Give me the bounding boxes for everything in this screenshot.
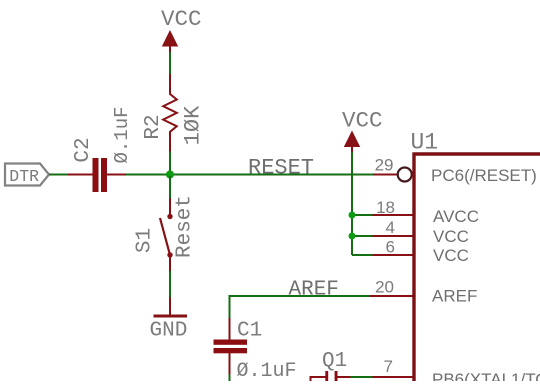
node junction RESET (R2/C2/S1) bbox=[166, 170, 174, 178]
svg-text:1ØK: 1ØK bbox=[180, 105, 205, 145]
svg-text:AREF: AREF bbox=[432, 287, 477, 306]
wire elbow to pin 6 bbox=[352, 254, 374, 256]
svg-text:PB6(XTAL1/TOSC1): PB6(XTAL1/TOSC1) bbox=[432, 370, 540, 381]
svg-text:Ø.1uF: Ø.1uF bbox=[111, 106, 133, 163]
pin 6 line bbox=[373, 254, 414, 256]
svg-text:RESET: RESET bbox=[248, 156, 314, 181]
GND lead bbox=[169, 298, 171, 316]
pin 29 line bbox=[373, 174, 398, 176]
svg-text:S1: S1 bbox=[134, 228, 157, 253]
wire VCC bus down along U1 bbox=[351, 152, 353, 255]
pin 29 inversion bubble bbox=[398, 168, 412, 182]
power symbol VCC (right, feeding U1 power pins) bbox=[342, 108, 383, 153]
svg-text:VCC: VCC bbox=[161, 6, 202, 32]
S1 bottom contact bbox=[167, 252, 172, 257]
C2 left plate bbox=[93, 158, 99, 192]
C1 top plate bbox=[214, 340, 248, 345]
svg-text:18: 18 bbox=[376, 198, 395, 217]
svg-text:R2: R2 bbox=[142, 114, 165, 139]
wire S1 to GND bbox=[169, 271, 171, 298]
svg-text:C2: C2 bbox=[72, 137, 95, 162]
svg-text:Q1: Q1 bbox=[322, 350, 347, 373]
wire RESET net to pin 29 bbox=[170, 174, 374, 176]
wire below C1 bbox=[229, 375, 231, 382]
junction at pin 18 wire bbox=[349, 212, 356, 219]
svg-text:29: 29 bbox=[375, 156, 394, 175]
pin 7 line bbox=[373, 376, 414, 378]
junction at pin 4 wire bbox=[349, 233, 356, 240]
svg-text:C1: C1 bbox=[237, 320, 262, 343]
Q1 left lead bbox=[310, 376, 326, 378]
C1 bottom plate bbox=[214, 348, 248, 353]
VCC arrow bbox=[162, 30, 178, 47]
svg-text:VCC: VCC bbox=[342, 108, 383, 134]
S1 top lead bbox=[169, 198, 171, 214]
DTR tag outline bbox=[5, 164, 49, 186]
crystal Q1 bbox=[310, 350, 352, 381]
pin 6 VCC bbox=[373, 238, 414, 257]
svg-text:VCC: VCC bbox=[433, 227, 469, 246]
pin 20 AREF bbox=[370, 278, 413, 297]
pin 18 AVCC bbox=[373, 198, 414, 217]
pin 4 VCC bbox=[373, 218, 414, 237]
svg-text:AVCC: AVCC bbox=[433, 207, 479, 226]
wire to pin 4 bbox=[352, 235, 374, 237]
net tag DTR bbox=[5, 164, 49, 187]
pin 18 line bbox=[373, 214, 414, 216]
switch S1 bbox=[134, 195, 197, 272]
wire R2 to junction bbox=[169, 152, 171, 177]
wire AREF elbow down to C1 bbox=[229, 295, 231, 319]
svg-text:U1: U1 bbox=[411, 130, 439, 156]
C1 bottom lead bbox=[229, 353, 231, 376]
svg-text:4: 4 bbox=[386, 218, 395, 237]
svg-text:PC6(/RESET): PC6(/RESET) bbox=[431, 166, 537, 185]
Q1 left plate bbox=[325, 371, 328, 381]
Q1 left wire stub down bbox=[310, 376, 312, 381]
Q1 right lead bbox=[338, 376, 352, 378]
power symbol VCC (top, feeding R2) bbox=[161, 6, 202, 53]
svg-text:7: 7 bbox=[384, 357, 393, 376]
Q1 right plate bbox=[335, 371, 338, 381]
capacitor C1 bbox=[214, 318, 297, 383]
wire to pin 18 bbox=[352, 214, 374, 216]
svg-text:Reset: Reset bbox=[174, 195, 197, 258]
wire AREF net bbox=[230, 295, 372, 297]
pin 7 PB6 bbox=[373, 357, 414, 377]
svg-text:AREF: AREF bbox=[289, 279, 339, 302]
IC U1 box outline bbox=[414, 154, 540, 381]
svg-text:VCC: VCC bbox=[433, 246, 469, 265]
wire C2 to junction bbox=[126, 174, 171, 176]
pin 4 line bbox=[373, 235, 414, 237]
resistor body (zigzag) bbox=[163, 74, 177, 153]
wire Q1 to pin 7 bbox=[351, 376, 374, 378]
pin 20 line bbox=[370, 295, 413, 297]
S1 top contact bbox=[167, 214, 172, 219]
capacitor C2 bbox=[68, 106, 134, 192]
S1 bottom lead bbox=[169, 257, 171, 272]
C2 right lead bbox=[107, 174, 127, 176]
resistor R2 bbox=[142, 74, 205, 153]
GND bar bbox=[154, 315, 188, 318]
VCC arrow bbox=[344, 131, 360, 148]
S1 blade bbox=[160, 218, 170, 255]
pin 29 PC6(/RESET) with inversion bubble bbox=[373, 156, 412, 182]
svg-text:Ø.1uF: Ø.1uF bbox=[237, 360, 297, 381]
wire DTR to C2 bbox=[49, 174, 68, 176]
C2 left lead bbox=[68, 174, 93, 176]
svg-text:GND: GND bbox=[150, 320, 188, 343]
wire VCC to R2 bbox=[169, 52, 171, 75]
C2 right plate bbox=[101, 158, 107, 192]
svg-text:6: 6 bbox=[386, 238, 395, 257]
C1 top lead bbox=[229, 318, 231, 340]
svg-text:DTR: DTR bbox=[9, 167, 39, 186]
ground GND bbox=[150, 298, 188, 343]
svg-text:20: 20 bbox=[375, 278, 394, 297]
wire junction to S1 bbox=[169, 176, 171, 198]
